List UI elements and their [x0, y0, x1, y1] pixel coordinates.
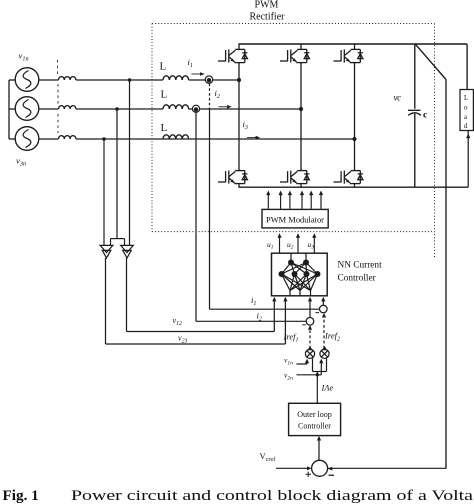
label u1 [267, 240, 274, 251]
IGBT S4 bottom [218, 169, 247, 188]
svg-text:Rectifier: Rectifier [250, 12, 286, 23]
svg-text:L: L [161, 122, 168, 134]
label v12 [173, 316, 182, 327]
gate signal arrows [268, 195, 321, 209]
label L2 [161, 89, 168, 101]
label plus [306, 472, 312, 477]
svg-text:vc: vc [394, 93, 402, 103]
source v2n [15, 97, 39, 121]
NN Current Controller box [272, 253, 328, 296]
summing junction 2 [306, 301, 314, 326]
junction tap3 [102, 137, 106, 141]
label i1 [188, 57, 205, 76]
wire phase 1 [39, 79, 239, 81]
wire v12 [127, 258, 275, 332]
current sensor i2 [192, 105, 199, 112]
wire multiplier feed U [313, 358, 327, 371]
dotted boundary of PWM rectifier [152, 24, 435, 259]
load box [460, 90, 473, 131]
label u3 [308, 240, 315, 251]
Outer loop Controller box [289, 403, 341, 435]
IGBT S2 top [280, 43, 309, 63]
inductor L phase3 [163, 135, 189, 139]
wire i1 feedback [210, 84, 320, 310]
source v3n [15, 127, 39, 151]
source v1n [15, 68, 39, 92]
wire v-tap phase1 [129, 80, 131, 245]
label v2n template [284, 371, 293, 382]
wire v-tap phase3 [103, 139, 105, 245]
wire DC+ bus [239, 43, 467, 45]
svg-text:PWM Modulator: PWM Modulator [266, 216, 324, 225]
wire load bottom lead [467, 131, 469, 188]
label i2 [215, 88, 232, 109]
wire leg 1 [238, 63, 240, 170]
summing junction 1 [320, 301, 328, 313]
capacitor branch wire [414, 44, 416, 187]
IGBT S5 bottom [280, 169, 309, 188]
label L3 [161, 122, 168, 134]
svg-text:L: L [464, 95, 468, 102]
IGBT S1 top [218, 43, 247, 63]
voltage sensor PT1 [100, 245, 113, 258]
caption [3, 487, 474, 504]
svg-text:a: a [464, 114, 467, 121]
label L1 [160, 61, 167, 73]
svg-text:c: c [423, 111, 427, 121]
wire Iref2 dashed [323, 318, 325, 349]
wire leg 2 [300, 63, 302, 170]
wire Iref1 dashed [309, 330, 311, 349]
label u2 [287, 240, 294, 251]
capacitor C [408, 110, 421, 115]
junction phase2-leg2 [299, 107, 303, 111]
wire phase 3 [39, 138, 355, 140]
current sensor i1 [205, 76, 212, 83]
label v23 [178, 334, 187, 345]
minus sign 2 [302, 324, 306, 326]
label Iref2 [324, 331, 340, 343]
svg-text:d: d [464, 123, 468, 130]
label Iref1 [283, 332, 299, 344]
label IAe [321, 383, 334, 393]
IGBT S6 bottom [334, 169, 363, 188]
label Vref [260, 451, 277, 463]
label i1 feedback [251, 295, 256, 307]
inductor L phase1 [163, 76, 189, 80]
label v1n [19, 51, 29, 63]
junction IAe-v2n [316, 373, 319, 376]
summing junction Vref [312, 460, 328, 476]
svg-text:NN Current: NN Current [338, 261, 383, 271]
neural network sketch [282, 254, 318, 296]
junction tap1 [128, 78, 132, 82]
label vc [394, 93, 402, 103]
label i3 [243, 119, 261, 139]
wire Vref [276, 467, 308, 469]
core dash line [57, 60, 60, 133]
label i2 feedback [257, 311, 262, 323]
junction phase3-leg3 [352, 137, 356, 141]
wire i2 feedback [196, 113, 306, 321]
label minus [329, 474, 335, 476]
svg-text:L: L [160, 61, 167, 73]
wire phase 2 [39, 108, 301, 110]
wire leg 3 [354, 63, 356, 170]
label NN Current Controller [338, 261, 383, 284]
inductor L phase2 [163, 105, 189, 109]
label c [423, 111, 427, 121]
wire IAe [316, 372, 318, 404]
wire error to controller [318, 440, 320, 460]
multiplier M1 [305, 346, 314, 358]
svg-text:Fig. 1: Fig. 1 [3, 487, 39, 504]
wire v-tap phase2 [111, 109, 125, 245]
svg-text:o: o [464, 105, 468, 112]
svg-text:PWM: PWM [255, 0, 279, 11]
wire load top lead [466, 44, 468, 90]
junction phase1-leg1 [237, 78, 241, 82]
svg-text:Power circuit and control bloc: Power circuit and control block diagram … [71, 487, 473, 504]
PWM Modulator box [262, 209, 328, 228]
svg-text:Outer loop: Outer loop [297, 410, 331, 419]
wire DC- bus [239, 186, 468, 188]
label v1n template [284, 356, 293, 367]
wire diagonal to load branch [416, 44, 446, 468]
node neutral bus [9, 80, 16, 139]
junction tap2 [115, 107, 119, 111]
u1 u2 u3 arrows [280, 238, 315, 253]
label v3n [16, 156, 26, 168]
multiplier M2 [320, 346, 329, 358]
svg-text:IΛe: IΛe [321, 383, 334, 393]
label PWM Rectifier title [250, 0, 286, 23]
svg-text:Controller: Controller [338, 274, 377, 284]
minus sign 1 [316, 312, 320, 314]
wire v1n template [297, 362, 308, 364]
svg-text:Controller: Controller [298, 422, 331, 431]
svg-text:L: L [161, 89, 168, 101]
IGBT S3 top [334, 43, 363, 63]
voltage sensor PT2 [121, 245, 134, 258]
wire vc feedback bottom [328, 467, 447, 469]
wire v2n template [297, 362, 322, 375]
wire v23 [106, 258, 286, 344]
